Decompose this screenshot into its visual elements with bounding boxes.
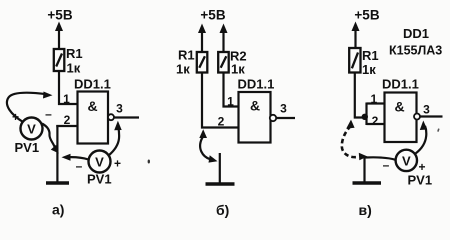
wire output pin3 (v) — [420, 115, 443, 117]
svg-text:3: 3 — [116, 102, 123, 116]
svg-text:К155ЛА3: К155ЛА3 — [389, 44, 442, 58]
voltmeter PV1 (v) — [396, 150, 417, 171]
probe lead minus of upper PV1 to ground wire (a) — [42, 124, 59, 154]
svg-text:1к: 1к — [231, 62, 245, 77]
svg-text:&: & — [87, 98, 97, 114]
wire R1 to pin1 (a) — [58, 71, 60, 105]
ground (v) — [353, 181, 382, 185]
wire R2 to pin1 (b) — [224, 73, 239, 107]
wire supply arrow right (b) — [220, 24, 228, 53]
svg-text:а): а) — [52, 202, 64, 218]
resistor R1 (a) — [54, 49, 65, 71]
resistor R1 (v) — [349, 48, 360, 73]
svg-text:PV1: PV1 — [15, 140, 40, 155]
resistor R2 (b) — [218, 52, 229, 73]
voltmeter PV1 lower (a) — [89, 151, 111, 173]
svg-text:PV1: PV1 — [408, 173, 433, 188]
junction node dot (v) — [362, 114, 368, 120]
svg-text:в): в) — [359, 202, 372, 218]
svg-text:+: + — [114, 157, 121, 171]
ground (a) — [46, 181, 69, 184]
wire supply arrow left (b) — [198, 24, 206, 53]
probe lead minus of lower PV1 to ground wire (a) — [62, 154, 89, 161]
svg-text:DD1.1: DD1.1 — [238, 77, 275, 92]
wire output pin3 (a) — [114, 116, 139, 118]
svg-text:&: & — [394, 99, 404, 115]
wire pin2 (v) — [367, 123, 385, 125]
svg-text:R1: R1 — [178, 48, 195, 63]
svg-text:R1: R1 — [66, 46, 83, 61]
svg-text:–: – — [45, 107, 52, 121]
inversion bubble pin3 (v) — [414, 114, 420, 120]
ink speck left of circuit a bottom — [148, 160, 150, 164]
svg-text:V: V — [27, 122, 36, 137]
svg-text:3: 3 — [280, 102, 287, 116]
wire input bracket pins 1-2 (v) — [367, 102, 385, 104]
svg-text:PV1: PV1 — [87, 172, 112, 187]
move arrow between pin2 node and ground (b) — [199, 129, 217, 162]
wire pin2 (a) — [56, 125, 77, 127]
svg-text:2: 2 — [372, 114, 379, 128]
ink speck right of circuit v output — [437, 128, 440, 132]
svg-text:R1: R1 — [362, 48, 379, 63]
svg-text:+5В: +5В — [47, 8, 72, 23]
svg-text:1к: 1к — [176, 62, 190, 77]
svg-text:–: – — [76, 159, 83, 173]
svg-text:DD1.1: DD1.1 — [382, 77, 419, 92]
NAND gate DD1.1 (b) — [239, 92, 271, 143]
resistor R1 (b) — [197, 52, 208, 73]
ground (b) — [206, 182, 235, 186]
svg-text:1: 1 — [227, 95, 234, 109]
svg-text:DD1.1: DD1.1 — [74, 77, 111, 92]
svg-text:б): б) — [216, 202, 229, 218]
wire R1 to input junction (v) — [355, 73, 363, 118]
probe lead plus of lower PV1 to pin3 node (a) — [109, 121, 122, 156]
inversion bubble pin3 (a) — [108, 114, 114, 120]
wire pin1 (a) — [58, 103, 78, 105]
wire minus lead PV1 to ground (v) — [366, 157, 396, 159]
svg-text:V: V — [402, 153, 411, 168]
svg-text:&: & — [250, 98, 260, 114]
wire R1 to pin2 (b) — [202, 73, 239, 128]
svg-text:1к: 1к — [67, 61, 81, 76]
inversion bubble pin3 (b) — [270, 115, 276, 121]
dashed move arrow from junction to ground node (v) — [342, 120, 368, 161]
NAND gate DD1.1 (v) — [385, 93, 417, 143]
wire supply arrow (a) — [55, 22, 63, 50]
svg-text:1: 1 — [370, 92, 377, 106]
svg-text:V: V — [95, 155, 104, 170]
svg-text:3: 3 — [423, 103, 430, 117]
NAND gate DD1.1 (a) — [78, 92, 109, 144]
svg-text:+5В: +5В — [200, 8, 225, 23]
voltmeter PV1 upper (a) — [21, 118, 43, 140]
wire pin2 to ground (a) — [56, 125, 58, 183]
probe lead plus of upper PV1 to pin1 node (a) — [7, 92, 53, 123]
svg-text:1к: 1к — [362, 62, 376, 77]
wire supply arrow (v) — [352, 22, 360, 49]
svg-text:–: – — [383, 158, 390, 172]
svg-text:+5В: +5В — [354, 8, 379, 23]
wire bracket vertical (v) — [365, 103, 367, 126]
probe lead plus of PV1 to pin3 node (v) — [416, 121, 428, 154]
ground stub wire (b) — [219, 153, 221, 184]
svg-text:2: 2 — [218, 115, 225, 129]
ground stub wire (v) — [363, 157, 365, 183]
svg-text:2: 2 — [64, 113, 71, 127]
svg-text:DD1: DD1 — [403, 26, 429, 41]
wire output pin3 (b) — [276, 117, 295, 119]
svg-text:1: 1 — [63, 92, 70, 106]
